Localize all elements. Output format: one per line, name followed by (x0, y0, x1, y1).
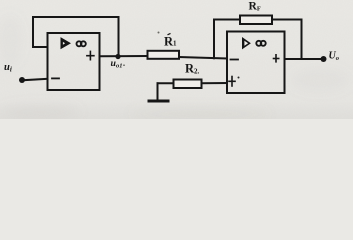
wire: u_i to U1 inverting input (22, 79, 48, 81)
wire: U1 output to R1 (100, 55, 148, 57)
resistor RF body (240, 16, 272, 25)
resistor R2 body (174, 80, 202, 89)
wire: R1 to U2 inverting input (179, 57, 227, 59)
label u_o1 (111, 58, 123, 70)
label R1 (164, 33, 177, 48)
node u_i terminal dot (19, 77, 25, 83)
ground bar (149, 100, 168, 103)
wire: RF left leg and top-left segment (214, 20, 240, 59)
op-amp U1 inverting input mark (52, 77, 59, 79)
label RF (249, 1, 261, 13)
op-amp U2 output polarity + (274, 55, 279, 62)
op-amp U2 inverting input mark (231, 59, 239, 61)
node U_o terminal dot (321, 56, 327, 62)
label U_o (329, 50, 340, 62)
label u_i (4, 62, 12, 73)
scan speck (158, 32, 160, 34)
resistor R1 body (148, 51, 180, 59)
paper background (0, 0, 353, 119)
op-amp U2 box (227, 32, 285, 94)
op-amp U2 gain triangle (243, 38, 251, 48)
label R2 (185, 62, 200, 76)
wire: RF top-right segment and right leg (272, 20, 302, 60)
op-amp U1 infinity symbol (77, 41, 86, 46)
wire: R2 to U2 non-inverting input (202, 82, 228, 84)
ground wire from R2 node (157, 83, 159, 100)
wire: U1 feedback loop (output node to upper-left input) (33, 17, 119, 57)
wire: U2 output to U_o terminal (285, 58, 323, 60)
op-amp U1 output polarity + (87, 51, 94, 59)
op-amp U2 infinity symbol (256, 41, 265, 46)
scan speck after u_o1 (123, 64, 125, 66)
node u_o1 junction dot (115, 54, 120, 59)
wire: ground node to R2 (158, 82, 174, 84)
op-amp U2 non-inverting input mark (229, 77, 235, 87)
op-amp U1 gain triangle (61, 38, 70, 48)
op-amp U1 box (48, 33, 100, 90)
